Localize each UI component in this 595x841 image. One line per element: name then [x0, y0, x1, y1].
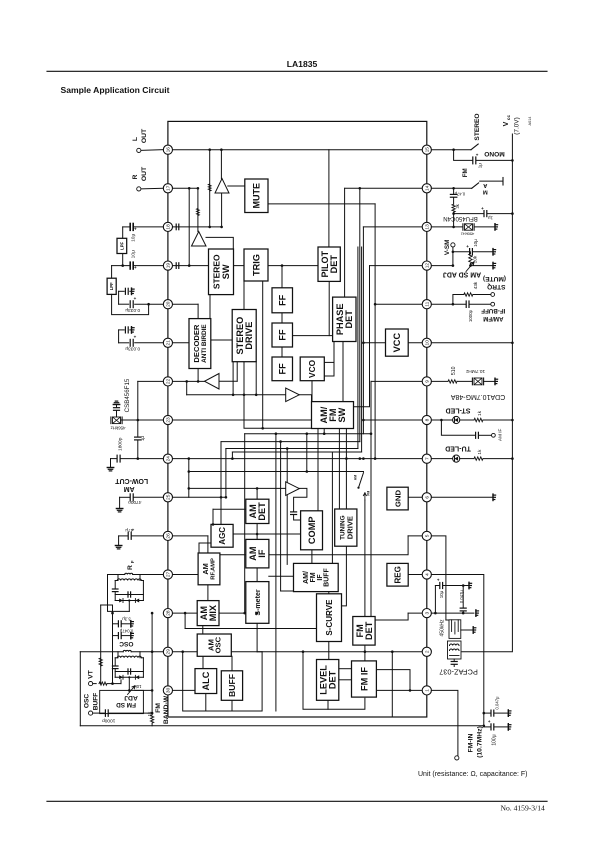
svg-text:10: 10	[425, 340, 431, 346]
terminal L OUT	[141, 149, 163, 152]
block AGC	[211, 524, 233, 547]
wire	[236, 362, 238, 382]
svg-text:5: 5	[425, 534, 431, 537]
svg-text:LPF: LPF	[109, 282, 114, 290]
svg-text:+: +	[476, 152, 479, 157]
svg-text:OSC: OSC	[83, 694, 90, 709]
wire pin15 drop to PILOT DET	[328, 150, 330, 247]
pin 23	[163, 415, 172, 424]
svg-text:6: 6	[425, 496, 431, 499]
svg-text:VCO: VCO	[307, 359, 317, 378]
svg-text:1k: 1k	[477, 410, 483, 416]
wire	[189, 471, 364, 473]
wire pin26 row	[168, 535, 208, 537]
svg-text:AM: AM	[124, 485, 135, 492]
capacitor 0.033u (pin20)	[119, 303, 129, 305]
svg-text:1μ: 1μ	[488, 215, 493, 220]
svg-text:FF: FF	[278, 363, 288, 375]
resistor (amp input)	[208, 184, 211, 191]
svg-text:+: +	[488, 719, 491, 724]
svg-text:10μ: 10μ	[473, 239, 478, 247]
block ALC	[195, 669, 217, 694]
svg-text:13: 13	[425, 224, 431, 230]
svg-text:0.033μ: 0.033μ	[125, 346, 140, 352]
svg-text:OUT: OUT	[141, 128, 148, 143]
svg-text:IF: IF	[257, 549, 267, 558]
block VCC	[386, 329, 409, 356]
wire	[333, 342, 335, 377]
wire bus	[232, 451, 361, 453]
wire scurve-level	[328, 642, 330, 660]
wire pin19 row	[168, 265, 320, 267]
capacitor 10u (pin18)	[123, 226, 131, 228]
svg-text:1k: 1k	[477, 449, 483, 455]
capacitor 1u (pin23 branch)	[137, 420, 139, 436]
terminal FM-IN	[431, 690, 458, 755]
op-amp A5	[286, 482, 300, 496]
wire LPF2 out	[112, 294, 149, 314]
block FF3	[272, 357, 293, 381]
potentiometer 10k FM SD ADJ	[100, 690, 144, 713]
pin 17	[163, 184, 172, 193]
wire smeter out	[256, 623, 258, 651]
svg-text:+: +	[134, 296, 137, 301]
wire rfamp-mix	[207, 585, 209, 601]
svg-text:Unit (resistance: Ω, capacitan: Unit (resistance: Ω, capacitance: F)	[418, 771, 528, 778]
wire sw-decoder	[209, 295, 211, 319]
wire	[275, 434, 277, 577]
svg-text:FM SD: FM SD	[116, 701, 136, 708]
svg-text:0.047μ: 0.047μ	[119, 628, 133, 633]
svg-text:ALC: ALC	[201, 671, 211, 690]
block VCO	[300, 357, 324, 381]
svg-text:BUFF: BUFF	[227, 674, 237, 697]
block AM DET	[246, 499, 269, 523]
pin 6	[422, 493, 431, 502]
op-amp A4	[286, 388, 300, 402]
block TRIG	[244, 249, 268, 281]
wire tank tap	[128, 677, 130, 690]
pin 18	[163, 222, 172, 231]
wire	[327, 700, 329, 709]
ground bus left	[79, 652, 81, 726]
wire pin27 drop	[128, 601, 130, 612]
wire bus	[362, 227, 364, 434]
capacitor 100u (rail)	[484, 726, 491, 728]
svg-text:Sample Application Circuit: Sample Application Circuit	[61, 85, 170, 95]
svg-text:AM: AM	[201, 563, 210, 575]
svg-text:+: +	[437, 578, 440, 583]
wire pin8 row	[363, 419, 426, 421]
ground bus bottom	[80, 725, 484, 727]
svg-text:FF: FF	[278, 329, 288, 341]
svg-text:16: 16	[166, 147, 172, 153]
svg-text:V: V	[503, 121, 510, 126]
wire phase-sw	[342, 342, 344, 402]
pin 30	[163, 686, 172, 695]
svg-text:+: +	[134, 265, 137, 270]
wire vco-phase	[324, 375, 334, 377]
wire amp out	[294, 488, 307, 511]
op-amp A2	[192, 232, 207, 247]
wire sw to comp	[317, 429, 319, 511]
svg-text:2: 2	[425, 650, 431, 653]
wire osc-alc	[202, 656, 204, 668]
wire	[306, 434, 308, 472]
switch AM/FM IF select	[359, 473, 364, 488]
svg-text:LA1835: LA1835	[287, 59, 318, 69]
capacitor 3.3u (pin28)	[112, 613, 114, 637]
svg-text:GND: GND	[393, 489, 402, 507]
svg-text:DRIVE: DRIVE	[244, 322, 254, 350]
svg-text:OUT: OUT	[141, 166, 148, 181]
wire	[370, 381, 372, 616]
svg-text:cc: cc	[506, 115, 511, 121]
svg-text:17: 17	[166, 185, 172, 191]
svg-text:0.47μ: 0.47μ	[454, 192, 465, 197]
wire rfamp-if	[218, 554, 246, 556]
svg-text:12: 12	[425, 263, 431, 269]
pin 4	[422, 570, 431, 579]
svg-text:MONO: MONO	[484, 150, 505, 157]
wire	[185, 628, 316, 630]
wire	[184, 613, 186, 628]
wire sw to tuning	[338, 429, 340, 510]
wire	[186, 381, 188, 394]
svg-text:29: 29	[166, 649, 172, 655]
svg-text:DET: DET	[344, 310, 354, 329]
svg-text:BUFF: BUFF	[92, 693, 99, 711]
wire sw to s-curve	[342, 429, 347, 606]
wire pin23 row	[168, 419, 311, 421]
svg-text:23: 23	[166, 417, 172, 423]
svg-text:10μ: 10μ	[130, 233, 136, 241]
pin 11	[422, 300, 431, 309]
wire pin9 row	[371, 380, 427, 382]
block STEREO SW	[209, 249, 234, 295]
svg-text:10k: 10k	[134, 684, 142, 689]
svg-text:R: R	[127, 565, 134, 570]
svg-text:0.033μ: 0.033μ	[125, 307, 140, 313]
terminal V-SM (pin12)	[431, 265, 453, 267]
svg-text:0.047μ: 0.047μ	[494, 696, 499, 709]
wire to amp	[197, 188, 199, 231]
wire	[391, 652, 393, 717]
svg-text:4: 4	[425, 573, 431, 576]
svg-text:DET: DET	[329, 255, 339, 274]
block FM DET	[353, 617, 375, 646]
svg-text:+: +	[466, 244, 469, 249]
svg-text:0.047μ: 0.047μ	[459, 590, 464, 603]
capacitor (coupling)	[175, 263, 177, 269]
svg-text:L: L	[132, 137, 139, 141]
LED TU-LED + resistor 1k (pin7)	[431, 458, 452, 460]
wire bus	[357, 247, 359, 449]
wire pin24/pin7 row	[168, 458, 427, 460]
svg-text:FM: FM	[155, 703, 162, 713]
svg-text:BAND-W: BAND-W	[163, 695, 170, 724]
wire ff-ff	[281, 313, 283, 323]
wire pin10 row	[408, 342, 427, 344]
terminal R OUT	[141, 187, 163, 190]
wire	[244, 395, 312, 429]
wire ff-ff	[281, 347, 283, 357]
pin 15	[422, 145, 431, 154]
wire to amp	[189, 487, 286, 489]
wire	[363, 342, 385, 344]
wire pin21 row	[168, 342, 189, 344]
svg-text:STRQ: STRQ	[487, 283, 505, 290]
pin 21	[163, 338, 172, 347]
svg-text:1μ: 1μ	[477, 163, 482, 168]
pin 16	[163, 145, 172, 154]
wire to PHASE DET	[344, 188, 346, 297]
svg-text:TRIG: TRIG	[251, 254, 261, 276]
IC outline	[168, 121, 427, 717]
pin 29	[163, 647, 172, 656]
wire	[269, 536, 408, 555]
wire osc-buff	[231, 656, 233, 671]
wire pin5 branch	[431, 536, 446, 620]
svg-text:S-CURVE: S-CURVE	[325, 599, 334, 636]
pin 9	[422, 377, 431, 386]
svg-text:DET: DET	[257, 502, 267, 521]
wire pin18 row	[168, 226, 222, 228]
wire to amp	[187, 394, 286, 396]
potentiometer AM SD ADJ	[466, 262, 474, 272]
wire	[257, 651, 427, 653]
LPF block 2	[111, 266, 113, 279]
wire	[286, 449, 288, 565]
svg-text:MUTE: MUTE	[252, 183, 262, 209]
svg-text:3: 3	[425, 611, 431, 614]
wire level-fmif	[339, 679, 352, 681]
block FM IF	[352, 661, 377, 697]
svg-text:4700p: 4700p	[128, 499, 142, 505]
pin 10	[422, 338, 431, 347]
switch FM/AM (pin14)	[431, 187, 471, 189]
wire	[188, 459, 190, 498]
wire	[275, 576, 277, 711]
wire trig drop	[262, 281, 264, 428]
svg-text:1000p: 1000p	[102, 717, 116, 723]
ceramic filter BFU450C4N (pin13)	[431, 226, 462, 228]
svg-text:ANTI BIRDIE: ANTI BIRDIE	[201, 324, 208, 363]
block AM OSC	[197, 634, 231, 656]
svg-text:CDA10.7MG-48A: CDA10.7MG-48A	[450, 393, 505, 400]
wire	[198, 543, 200, 553]
wire pin17 row	[168, 187, 198, 189]
wire MUTE output	[268, 203, 375, 205]
svg-text:OSC: OSC	[119, 640, 134, 647]
wire pin4 rail	[431, 575, 483, 727]
pin 2	[422, 647, 431, 656]
resistor 3k	[452, 204, 455, 212]
svg-text:M: M	[483, 188, 488, 194]
svg-text:AM IF: AM IF	[498, 428, 503, 440]
resonator CSB456F15 (pin22/23)	[138, 380, 164, 382]
wire	[231, 651, 262, 653]
wire det-if	[256, 524, 258, 540]
wire pin11 row	[375, 303, 427, 305]
wire loop	[303, 652, 365, 710]
wire	[281, 590, 297, 592]
svg-text:AM SD ADJ: AM SD ADJ	[443, 270, 481, 277]
svg-text:8: 8	[425, 418, 431, 421]
pin 8	[422, 415, 431, 424]
svg-text:30: 30	[166, 687, 172, 693]
wire vco-phase	[324, 361, 334, 363]
svg-text:(10.7MHz): (10.7MHz)	[476, 726, 483, 758]
svg-text:A014: A014	[528, 117, 532, 126]
wire amp out	[221, 193, 223, 227]
svg-text:24: 24	[166, 456, 172, 462]
pin 27	[163, 570, 172, 579]
svg-text:LPF: LPF	[119, 242, 124, 250]
svg-text:3.3μ: 3.3μ	[122, 616, 131, 621]
wire	[207, 536, 209, 553]
svg-text:No. 4159-3/14: No. 4159-3/14	[501, 804, 545, 813]
svg-text:10μ: 10μ	[439, 590, 444, 598]
wire pin13 row	[363, 226, 426, 228]
svg-text:FF: FF	[278, 294, 288, 306]
wire pin16/pin15 row	[168, 149, 427, 151]
resistor 20k	[469, 254, 472, 264]
wire	[197, 304, 199, 318]
svg-text:10μ: 10μ	[130, 250, 136, 258]
wire	[280, 442, 282, 591]
capacitor 0.033u (pin21)	[119, 342, 129, 344]
svg-text:14: 14	[425, 185, 431, 191]
IF transformer PCFAZ-037	[448, 641, 462, 659]
pin 7	[422, 454, 431, 463]
block GND	[387, 487, 408, 510]
wire pin5 row	[408, 535, 427, 537]
wire VT drop	[100, 605, 102, 684]
wire pin28 row	[168, 612, 197, 614]
block AM/FM IF BUFF	[294, 563, 339, 591]
svg-text:DECODER: DECODER	[192, 324, 201, 362]
block FF1	[272, 288, 293, 313]
svg-text:TU-LED: TU-LED	[445, 445, 471, 452]
svg-text:COMP: COMP	[307, 517, 317, 545]
svg-text:47μ: 47μ	[125, 528, 133, 533]
block COMP	[301, 511, 323, 550]
capacitor + AM IF terminal	[441, 420, 475, 435]
svg-text:(7.0V): (7.0V)	[513, 117, 520, 134]
block REG	[387, 563, 408, 586]
block PHASE DET	[333, 297, 356, 341]
svg-text:19: 19	[166, 263, 172, 269]
wire bus	[226, 448, 358, 450]
svg-text:43k: 43k	[473, 281, 478, 289]
wire trig drop	[243, 281, 245, 395]
pin 5	[422, 531, 431, 540]
wire	[323, 429, 325, 434]
svg-text:V-SM: V-SM	[444, 239, 451, 255]
svg-text:450kHz: 450kHz	[461, 231, 475, 236]
header rule	[47, 70, 547, 72]
pin 3	[422, 609, 431, 618]
capacitor 47u (pin26)	[119, 535, 128, 537]
pin 12	[422, 261, 431, 270]
block S-CURVE	[317, 594, 342, 642]
wire pin22 row	[168, 380, 205, 382]
inductor (OSC tank)	[80, 651, 123, 653]
capacitor 1000p / IF-BUFF terminal (pin11)	[431, 303, 465, 305]
wire pin29 row	[168, 651, 197, 653]
pin 20	[163, 300, 172, 309]
wire	[231, 452, 233, 459]
svg-text:456kHz: 456kHz	[111, 426, 126, 431]
wire pin30 row	[168, 689, 195, 691]
svg-text:AM: AM	[354, 475, 358, 480]
block S-meter	[246, 582, 269, 624]
ground (pin6)	[431, 496, 493, 498]
wire mix-osc	[202, 626, 204, 634]
wire comp-buff	[311, 550, 313, 564]
svg-text:DRIVE: DRIVE	[345, 516, 354, 539]
svg-text:25: 25	[166, 494, 172, 500]
capacitor 0.047u (pin3)	[462, 586, 464, 608]
svg-text:REG: REG	[393, 566, 402, 583]
svg-text:BUFF: BUFF	[324, 567, 331, 586]
svg-text:510: 510	[451, 366, 457, 375]
svg-text:AGC: AGC	[218, 527, 227, 545]
wire	[256, 488, 258, 500]
wire loop	[183, 652, 262, 711]
svg-text:OSC: OSC	[214, 636, 223, 653]
block AM/FM SW	[312, 402, 354, 429]
wire ff-phase	[293, 335, 333, 337]
block LEVEL DET	[317, 660, 339, 701]
svg-text:11: 11	[425, 301, 431, 306]
block AM RF.AMP	[198, 553, 220, 585]
wire	[225, 449, 227, 498]
block MUTE	[245, 179, 268, 213]
svg-text:21: 21	[166, 340, 172, 346]
svg-text:18: 18	[166, 224, 172, 230]
wire amp to MUTE	[228, 185, 245, 187]
svg-text:SW: SW	[337, 407, 347, 422]
capacitor 0.047u (pin28)	[113, 635, 118, 637]
wire pin25 row	[168, 496, 226, 498]
block BUFF	[221, 671, 242, 701]
wire bus	[359, 188, 361, 441]
wire	[188, 188, 190, 265]
wire pin10 to Vcc	[431, 342, 512, 344]
svg-text:10.7MHz: 10.7MHz	[465, 368, 485, 374]
wire pin20 row	[168, 303, 198, 305]
pin 26	[163, 531, 172, 540]
block DECODER ANTI BIRDIE	[189, 319, 211, 369]
capacitor (coupling)	[175, 224, 177, 230]
block AM IF	[246, 539, 269, 568]
svg-text:DET: DET	[328, 670, 338, 689]
capacitor 0.47u (series)	[453, 188, 455, 194]
footer rule	[47, 800, 547, 802]
svg-text:+: +	[134, 226, 137, 231]
svg-text:7: 7	[425, 457, 431, 460]
svg-text:BFU450C4N: BFU450C4N	[443, 215, 478, 222]
wire pin4 row	[408, 574, 427, 576]
op-amp A3	[205, 374, 220, 390]
wire bus	[221, 441, 360, 443]
resistor 1k	[151, 613, 153, 714]
wire	[232, 362, 234, 395]
wire to amp	[220, 150, 222, 179]
wire	[255, 362, 257, 395]
